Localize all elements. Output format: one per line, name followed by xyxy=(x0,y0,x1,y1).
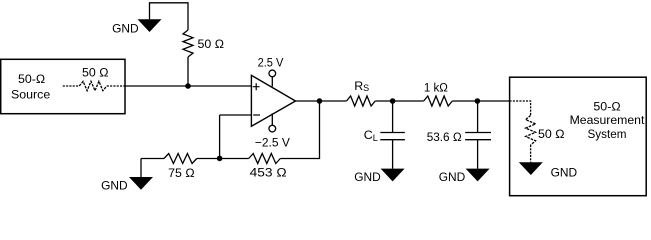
svg-text:GND: GND xyxy=(439,170,466,184)
svg-text:GND: GND xyxy=(354,170,381,184)
svg-text:2.5 V: 2.5 V xyxy=(258,55,284,69)
svg-text:Measurement: Measurement xyxy=(570,113,645,127)
svg-text:−2.5 V: −2.5 V xyxy=(255,135,291,149)
svg-text:453 Ω: 453 Ω xyxy=(250,165,287,179)
svg-text:50 Ω: 50 Ω xyxy=(198,37,225,51)
svg-text:GND: GND xyxy=(101,179,128,193)
svg-text:Source: Source xyxy=(11,88,50,102)
svg-text:System: System xyxy=(588,127,627,141)
svg-text:75 Ω: 75 Ω xyxy=(168,166,195,180)
svg-text:50-Ω: 50-Ω xyxy=(18,72,45,86)
svg-text:1 kΩ: 1 kΩ xyxy=(424,80,448,94)
svg-text:50 Ω: 50 Ω xyxy=(82,65,109,79)
svg-text:GND: GND xyxy=(551,166,578,180)
svg-text:GND: GND xyxy=(112,22,139,36)
svg-text:50-Ω: 50-Ω xyxy=(593,100,620,114)
svg-text:50 Ω: 50 Ω xyxy=(538,127,565,141)
svg-text:53.6 Ω: 53.6 Ω xyxy=(427,130,462,144)
